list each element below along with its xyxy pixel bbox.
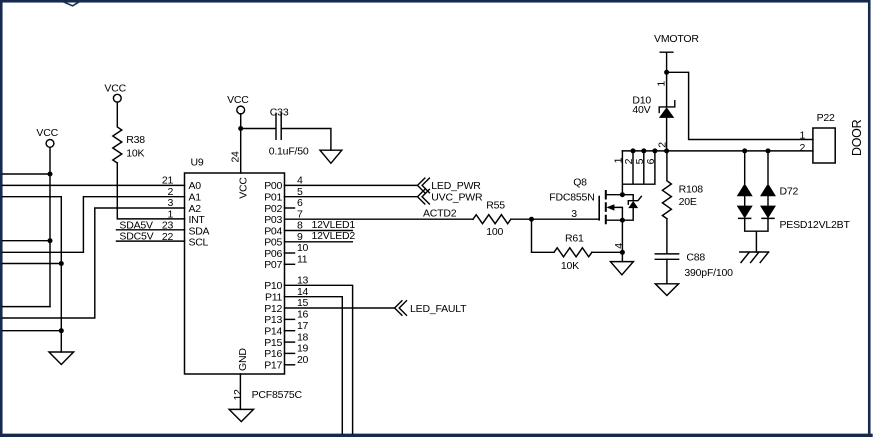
svg-text:6: 6 [297,197,303,209]
off-page chevrons UVC_PWR [418,189,430,204]
svg-text:13: 13 [297,275,309,287]
ground (left) [49,352,74,365]
svg-text:1: 1 [656,81,668,87]
resistor R55 [473,215,511,224]
diode Q8 body triangle [628,201,638,208]
wire VMOTOR down to D10 [666,72,668,107]
svg-text:3: 3 [571,208,577,220]
node VCC (R38) [113,94,121,102]
wire source stub [606,219,623,221]
connector P22 [813,128,835,163]
svg-text:P15: P15 [264,337,282,349]
svg-text:PCF8575C: PCF8575C [252,389,303,401]
svg-text:P03: P03 [264,214,282,226]
svg-text:P22: P22 [817,112,835,124]
diode D72b bottom triangle [760,206,776,219]
ground (Q8 source) [610,262,633,275]
svg-text:P07: P07 [264,259,282,271]
wire GND pin 12 stem [239,374,241,409]
pin stub P13 [285,318,295,320]
svg-text:15: 15 [297,297,309,309]
svg-text:390pF/100: 390pF/100 [684,267,733,279]
wire drain stub [606,194,623,196]
svg-text:12: 12 [232,389,244,401]
off-page diamond tip at top [64,2,78,6]
svg-text:VCC: VCC [104,83,126,95]
transistor Q8 gate bar [598,197,600,220]
wire INT [117,163,184,219]
diode D72a bottom triangle [737,206,753,219]
wire body stub [614,207,622,220]
wire A1 route [3,197,185,253]
transistor Q8 arrow [606,204,614,210]
wire to left edge y=174 [3,173,51,175]
wire drain comb [622,151,655,195]
pin stub P07 [285,263,295,265]
junction VMOTOR branch [664,70,669,75]
pin stub P02 [285,207,295,209]
svg-text:D72: D72 [780,185,799,197]
capacitor C33 [241,113,282,139]
svg-text:LED_FAULT: LED_FAULT [410,303,467,315]
ground (U9) [229,409,253,421]
wire A2 route [3,208,185,318]
wire VMOTOR branch to P22 pin1 [667,72,813,139]
svg-text:SCL: SCL [189,237,209,249]
svg-text:INT: INT [189,214,206,226]
svg-text:A2: A2 [189,203,202,215]
wire P00 LED_PWR [285,184,418,186]
svg-text:P02: P02 [264,203,282,215]
pin stub P16 [285,352,295,354]
diode D72a top triangle [737,183,753,196]
wire P12 LED_FAULT [285,307,395,309]
junction bus / drain pin 6 [652,148,657,153]
svg-text:P10: P10 [264,280,282,292]
svg-text:ACTD2: ACTD2 [423,208,457,220]
diode D10 cathode bar [659,101,675,113]
pin stub P15 [285,341,295,343]
svg-text:10K: 10K [561,260,579,272]
svg-text:FDC855N: FDC855N [549,192,594,204]
junction VCC pin24 / C33 [238,126,243,131]
junction Q8 source node [620,218,625,223]
svg-text:P14: P14 [264,326,282,338]
svg-text:24: 24 [230,151,242,163]
off-page chevrons LED_FAULT [395,301,407,316]
svg-text:VCC: VCC [36,127,58,139]
svg-text:R55: R55 [486,200,505,212]
svg-text:P01: P01 [264,192,282,204]
svg-text:P00: P00 [264,180,282,192]
svg-text:6: 6 [645,158,657,164]
svg-text:A1: A1 [189,192,202,204]
pin stub P17 [285,364,295,366]
power flag VMOTOR [660,52,673,72]
svg-text:3: 3 [167,197,173,209]
wire R61 to source node [592,251,622,253]
svg-text:LED_PWR: LED_PWR [431,180,481,192]
wire D72 stack mid [745,196,768,205]
capacitor C88 [655,219,678,260]
svg-text:R61: R61 [565,233,584,245]
svg-text:4: 4 [297,175,303,187]
wire C88 to ground [666,259,668,284]
svg-text:P16: P16 [264,348,282,360]
resistor R108 [662,151,671,219]
wire SDC5V [117,240,185,242]
svg-text:SDC5V: SDC5V [119,231,153,243]
svg-text:10K: 10K [126,147,144,159]
svg-text:10: 10 [297,242,309,254]
svg-text:0.1uF/50: 0.1uF/50 [269,146,309,158]
wire D72 bottoms [745,218,768,252]
diode D72b top triangle [760,183,776,196]
junction bus / drain pin 5 [641,148,646,153]
ground (C33) [320,150,342,163]
svg-text:P06: P06 [264,248,282,260]
ground (C88) [655,284,678,296]
svg-text:P05: P05 [264,237,282,249]
wire D72 stack 1 top [744,151,746,183]
svg-text:P11: P11 [265,292,282,304]
junction bus / D10 / R108 [664,148,669,153]
wire gate branch down [532,219,555,252]
wire source down [621,220,623,261]
pin stub P06 [285,252,295,254]
junction Q8 drain node [620,192,625,197]
svg-text:9: 9 [297,231,303,243]
svg-text:VCC: VCC [227,94,249,106]
wire R55 to gate [511,218,599,220]
wire VCC pin 24 stem [240,114,242,173]
junction bus / drain pin 2 [631,148,636,153]
wire VCC stem left [49,147,51,306]
svg-text:4: 4 [613,243,625,249]
svg-text:40V: 40V [632,104,650,116]
junction bus / D72a [742,148,747,153]
svg-text:C88: C88 [686,251,705,263]
svg-text:2: 2 [657,142,669,148]
svg-text:SDA5V: SDA5V [119,219,153,231]
svg-text:12VLED2: 12VLED2 [312,230,356,242]
wire to left edge y=306.6 [3,306,51,308]
wire D72 stack 2 top [767,151,769,183]
svg-text:VCC: VCC [237,177,249,199]
svg-text:11: 11 [297,254,308,266]
wire P05 12VLED2 [285,241,353,243]
svg-text:8: 8 [297,220,303,232]
svg-text:P13: P13 [264,314,282,326]
svg-text:7: 7 [297,208,303,220]
svg-text:23: 23 [162,220,174,232]
svg-text:16: 16 [297,309,309,321]
junction R55 / R61 / gate node [529,217,534,222]
diode D72 bottom bars [739,217,774,219]
svg-text:A0: A0 [189,180,202,192]
wire to left edge y=330.7 [3,330,62,332]
svg-text:1: 1 [167,208,173,220]
svg-text:PESD12VL2BT: PESD12VL2BT [780,219,851,231]
svg-text:C33: C33 [270,106,289,118]
svg-text:1: 1 [799,130,805,142]
junction VCC stem / wire y174 [48,172,53,177]
junction gnd vertical / wire y263 [59,261,64,266]
svg-text:21: 21 [162,175,174,187]
svg-text:22: 22 [162,231,174,243]
svg-text:UVC_PWR: UVC_PWR [431,192,483,204]
resistor R38 [113,102,122,163]
wire P10 down [285,285,353,433]
svg-text:14: 14 [297,286,309,298]
off-page chevrons LED_PWR [418,178,430,193]
svg-text:20: 20 [297,354,309,366]
diode body zener of Q8 [622,195,641,221]
wire P03 ACTD2 [285,218,474,220]
node VCC (left) [46,140,54,148]
IC U9 body [185,173,285,374]
svg-text:P12: P12 [264,303,282,315]
diode D10 triangle [659,107,674,118]
svg-text:U9: U9 [191,156,204,168]
chassis ground (D72) [740,252,769,263]
svg-text:2: 2 [167,186,173,198]
resistor R61 [554,248,592,257]
svg-text:100: 100 [486,226,503,238]
svg-text:18: 18 [297,331,309,343]
junction bus / D72b [766,148,771,153]
wire SDA5V [117,229,185,231]
svg-text:2: 2 [799,142,805,154]
wire to left edge y=240.7 [3,240,51,242]
wire main bus [622,150,813,152]
svg-text:20E: 20E [679,196,697,208]
svg-text:R38: R38 [126,134,145,146]
junction gnd vertical / wire y330 [59,328,64,333]
wire A0 row [3,184,185,186]
wire P04 12VLED1 [285,230,353,232]
svg-text:GND: GND [237,348,249,371]
svg-text:SDA: SDA [189,225,210,237]
svg-text:P04: P04 [264,225,282,237]
svg-text:17: 17 [297,320,309,332]
junction source / R61 / ground [620,250,625,255]
node VCC (U9) [237,106,245,114]
wire P11 down [285,297,343,434]
pin stub P14 [285,330,295,332]
svg-text:Q8: Q8 [573,176,587,188]
svg-text:12VLED1: 12VLED1 [312,219,356,231]
wire P01 UVC_PWR [285,196,418,198]
svg-text:R108: R108 [679,183,704,195]
svg-text:DOOR: DOOR [850,119,864,156]
svg-text:VMOTOR: VMOTOR [654,33,699,45]
svg-text:19: 19 [297,343,309,355]
svg-text:P17: P17 [264,360,282,372]
wire D10 to bus [666,118,668,151]
wire gnd branch from left edge [3,197,62,352]
junction VCC stem / wire y240 [48,238,53,243]
wire to left edge y=263.5 [3,263,62,265]
transistor Q8 channel dashes [605,191,607,223]
svg-text:5: 5 [297,186,303,198]
wire C33 to ground [281,129,331,151]
